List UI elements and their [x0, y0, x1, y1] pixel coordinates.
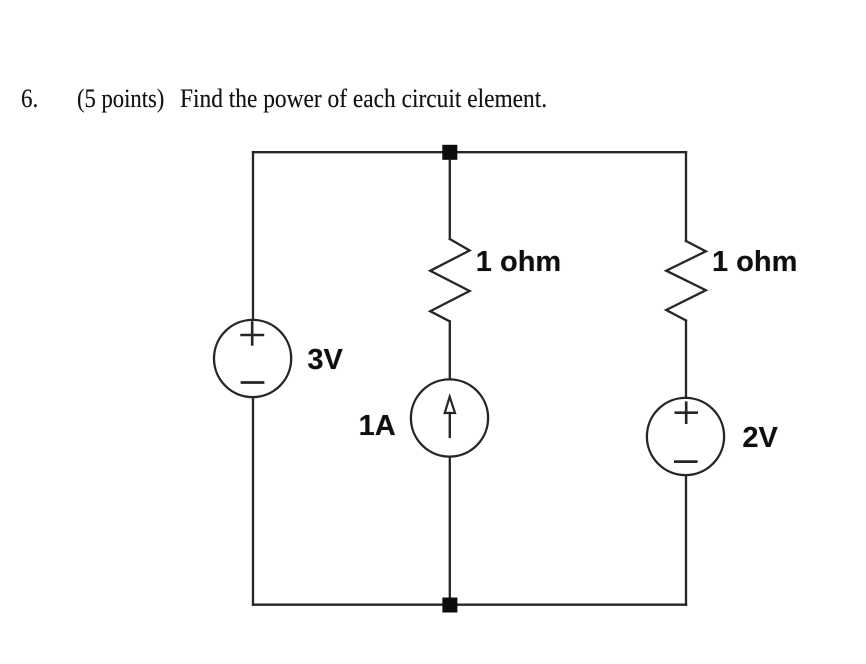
- node A top junction: [442, 145, 457, 160]
- resistor R2 1 ohm right zigzag: [666, 241, 706, 321]
- value label R2 1 ohm: [712, 248, 797, 277]
- V2 plus sign: [676, 403, 697, 423]
- wire left rail lower: [252, 397, 254, 604]
- V1 minus sign: [242, 381, 263, 384]
- wire right rail upper: [685, 152, 687, 241]
- wire V2 to bottom rail: [685, 476, 687, 605]
- wire current source to bottom node: [449, 457, 451, 598]
- V2 minus sign: [675, 460, 696, 463]
- title question number: [21, 86, 38, 112]
- value label R1 1 ohm: [476, 248, 561, 277]
- resistor R1 1 ohm middle zigzag: [430, 239, 469, 321]
- voltage source V1 3V circle: [214, 320, 291, 397]
- wire left rail upper: [252, 152, 254, 319]
- V1 plus sign: [242, 323, 263, 345]
- title points: [77, 86, 164, 112]
- I1 arrow tail: [449, 413, 451, 437]
- I1 arrow head open triangle: [445, 397, 455, 413]
- voltage source V2 2V circle: [647, 398, 724, 475]
- value label V2 2V: [742, 424, 777, 453]
- node B bottom junction: [442, 598, 457, 613]
- wire middle branch top: [449, 152, 451, 239]
- current source I1 1A circle: [411, 379, 488, 456]
- title prompt: [180, 86, 547, 112]
- value label V1 3V: [307, 346, 342, 375]
- value label I1 1A: [359, 412, 396, 441]
- wire R1 to current source: [449, 321, 451, 379]
- wire R2 to voltage source V2: [685, 321, 687, 398]
- wire top rail: [253, 151, 686, 153]
- wire bottom rail: [253, 604, 686, 606]
